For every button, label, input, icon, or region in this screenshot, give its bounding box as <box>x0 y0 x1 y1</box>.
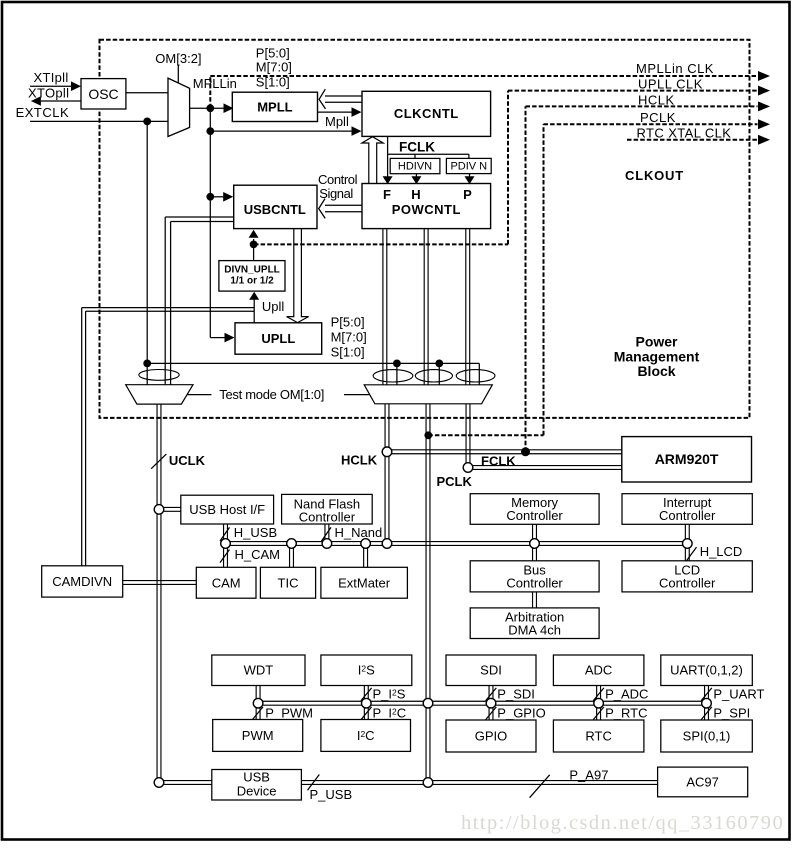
block Interrupt Controller box <box>622 494 752 525</box>
svg-text:Controller: Controller <box>659 508 716 523</box>
svg-text:Mpll: Mpll <box>325 114 349 129</box>
label P_SPI <box>713 705 750 720</box>
wire UCLK to USB Host I/F <box>159 507 181 511</box>
label P_A97 <box>569 767 608 782</box>
node HCLK bus junction <box>382 539 392 549</box>
svg-text:P_USB: P_USB <box>310 787 353 802</box>
label H_LCD <box>700 544 743 559</box>
label H_USB <box>234 525 277 540</box>
svg-text:SPI(0,1): SPI(0,1) <box>683 729 731 744</box>
wire UPLL CLK dashed tap <box>254 91 758 245</box>
svg-text:P_SPI: P_SPI <box>713 705 750 720</box>
wire PCLK dashed tap <box>428 124 757 435</box>
label CLKOUT <box>625 168 684 183</box>
wire HCLK distribution bus <box>226 542 688 546</box>
svg-text:P_I2C: P_I2C <box>373 705 407 720</box>
wire USBCNTL to UPLL hollow arrow <box>287 229 309 323</box>
label S[1:0] top <box>256 75 290 90</box>
wire P_GPIO slash <box>486 707 497 720</box>
block SDI box <box>446 655 536 686</box>
svg-text:PCLK: PCLK <box>437 474 473 489</box>
node TIC junction <box>287 539 297 549</box>
wire P bus POWCNTL to mux <box>466 229 470 385</box>
label HCLK out <box>638 93 675 108</box>
wire test mode callout left <box>187 394 211 396</box>
node P_SDI junction <box>486 698 496 708</box>
svg-text:P_RTC: P_RTC <box>605 705 647 720</box>
label P_UART <box>713 686 764 701</box>
wire P_UART slash <box>701 688 712 701</box>
svg-text:Test mode OM[1:0]: Test mode OM[1:0] <box>219 387 324 402</box>
block Arbitration DMA box <box>470 608 599 639</box>
label HCLK <box>341 452 378 467</box>
label P_I2S <box>373 686 406 701</box>
svg-text:SDI: SDI <box>480 663 502 678</box>
wire USB device bus left <box>159 781 212 785</box>
svg-text:P_PWM: P_PWM <box>265 706 313 721</box>
node PCLK USB junction <box>423 778 433 788</box>
svg-text:EXTCLK: EXTCLK <box>16 105 70 120</box>
wire MPLLin CLK dashed tap <box>210 76 757 108</box>
svg-text:DMA 4ch: DMA 4ch <box>508 622 561 637</box>
svg-text:MPLL: MPLL <box>257 99 292 114</box>
label Signal <box>319 186 353 201</box>
wire mux to MPLL (MPLLin) <box>190 103 234 113</box>
svg-text:RTC XTAL CLK: RTC XTAL CLK <box>637 125 732 140</box>
svg-text:Control: Control <box>318 172 358 187</box>
block POWCNTL box <box>362 184 491 229</box>
wire H_LCD slash <box>687 547 697 561</box>
mux test-mode right trapezoid <box>364 385 492 404</box>
block I2C box <box>321 720 411 752</box>
wire Memory-Bus controller stub <box>533 524 537 561</box>
wire P_A97 slash <box>530 775 550 798</box>
svg-text:XTOpll: XTOpll <box>28 85 69 100</box>
label Control <box>318 172 358 187</box>
wire HCLK vertical bus <box>385 404 389 544</box>
node HCLK junction circle <box>382 447 392 457</box>
node Upll tap dot <box>250 241 258 249</box>
svg-text:Device: Device <box>237 784 277 799</box>
block USB Host I/F box <box>181 495 274 524</box>
wire POWCNTL to CLKCNTL control-signal hollow arrow <box>362 137 383 184</box>
svg-text:Controller: Controller <box>506 575 563 590</box>
label Mpll <box>325 114 349 129</box>
label Upll <box>262 299 285 314</box>
node LCD junction <box>683 539 693 549</box>
wire I2S-I2C stub <box>364 686 368 720</box>
wire FCLK branch to dividers <box>388 154 469 158</box>
svg-text:USBCNTL: USBCNTL <box>244 202 306 217</box>
wire Upll bus left to CAMDIVN <box>82 308 254 566</box>
node bypass dot H <box>435 360 443 368</box>
label XTOpll <box>28 85 69 100</box>
wire UPLL to DIVN_UPLL <box>249 292 259 323</box>
svg-text:TIC: TIC <box>278 576 299 591</box>
svg-text:DIVN_UPLL: DIVN_UPLL <box>224 264 280 275</box>
wire POWCNTL to USBCNTL hollow arrow <box>319 199 362 219</box>
node P_I2S junction <box>362 698 372 708</box>
svg-text:HCLK: HCLK <box>638 93 675 108</box>
svg-text:ARM920T: ARM920T <box>655 451 719 467</box>
wire UART-SPI stub <box>705 686 709 721</box>
label P[5:0] top <box>256 46 290 61</box>
label P_SDI <box>497 686 535 701</box>
svg-text:Power: Power <box>635 334 678 350</box>
block GPIO box <box>446 720 536 752</box>
label P[5:0] right <box>331 314 365 329</box>
label P_I2C <box>373 705 407 720</box>
block UART box <box>661 655 753 686</box>
wire F bus POWCNTL to mux <box>383 229 387 385</box>
block ExtMater box <box>321 567 408 598</box>
label P_ADC <box>605 686 648 701</box>
svg-text:I2S: I2S <box>358 663 375 678</box>
wire P_I2S slash <box>361 688 372 701</box>
label PCLK <box>437 474 473 489</box>
label M[7:0] right <box>331 329 367 344</box>
node H_Nand junction <box>322 539 332 549</box>
svg-text:F: F <box>383 187 391 202</box>
svg-text:USB Host I/F: USB Host I/F <box>189 502 265 517</box>
svg-text:H_Nand: H_Nand <box>335 525 383 540</box>
arrow UPLL CLK output <box>758 86 770 96</box>
wire MPLLin down to UPLL input <box>210 197 234 343</box>
node P_ADC junction <box>594 698 604 708</box>
node HCLK-dashed dot <box>521 447 530 456</box>
node bypass corner dot <box>143 360 151 368</box>
svg-text:MPLLin: MPLLin <box>193 76 237 91</box>
mux test-mode left trapezoid <box>126 385 193 404</box>
svg-text:CLKOUT: CLKOUT <box>625 168 684 183</box>
block Memory Controller box <box>470 494 599 525</box>
svg-text:S[1:0]: S[1:0] <box>256 75 290 90</box>
svg-text:UCLK: UCLK <box>169 453 206 468</box>
wire OM[3:2] select stub <box>177 65 179 84</box>
svg-text:Block: Block <box>637 363 675 379</box>
node bypass dot F <box>393 360 401 368</box>
svg-text:H_CAM: H_CAM <box>235 547 281 562</box>
wire WDT-PWM stub <box>256 686 260 720</box>
block TIC box <box>260 567 315 598</box>
node P_PWM junction <box>253 698 263 708</box>
label P pin <box>463 187 472 202</box>
label P_GPIO <box>497 705 545 720</box>
node EXTCLK branch dot <box>143 118 151 126</box>
wire ADC-RTC stub <box>597 686 601 721</box>
wire OSC to mux <box>126 92 168 94</box>
divider PDIVN box <box>446 158 491 173</box>
label P_PWM <box>265 706 313 721</box>
svg-text:HDIVN: HDIVN <box>398 161 432 173</box>
svg-text:Controller: Controller <box>299 509 356 524</box>
block WDT box <box>212 655 305 686</box>
svg-text:OSC: OSC <box>88 86 118 102</box>
svg-text:P_ADC: P_ADC <box>605 686 648 701</box>
node UCLK to USB Host junction <box>154 505 164 515</box>
wire USB device bus right <box>301 781 657 785</box>
svg-text:H_LCD: H_LCD <box>700 544 743 559</box>
svg-text:CLKCNTL: CLKCNTL <box>394 106 459 121</box>
wire CLKCNTL to MPLL hollow arrow (PMS) <box>319 89 362 109</box>
wire MPLLin to CLKCNTL <box>210 126 361 136</box>
svg-text:WDT: WDT <box>244 663 274 678</box>
wire test mode callout right <box>344 394 370 396</box>
wire bypass horizontal to test muxes <box>147 363 479 384</box>
node UCLK USB junction <box>154 778 164 788</box>
node PCLK dashed tap dot <box>424 431 432 439</box>
label PCLK out <box>640 110 676 125</box>
cpu ARM920T box <box>622 437 752 482</box>
wire HCLK bus to ARM920T <box>387 450 622 454</box>
block RTC box <box>553 720 644 752</box>
wire Upll tap to DIVN_UPLL <box>253 244 255 260</box>
wire USB Host to CAM stub <box>224 524 228 567</box>
label S[1:0] right <box>331 344 365 359</box>
node MPLLin-CLKCNTL dot <box>206 127 214 135</box>
node ExtMater junction <box>361 539 371 549</box>
svg-text:1/1 or 1/2: 1/1 or 1/2 <box>230 275 274 286</box>
wire H_CAM slash <box>220 550 230 563</box>
label OM[3:2] <box>155 51 201 66</box>
svg-text:OM[3:2]: OM[3:2] <box>155 51 201 66</box>
svg-text:Controller: Controller <box>506 508 563 523</box>
divider DIVN_UPLL box <box>219 261 285 292</box>
wire PCLK vertical bus <box>426 404 430 783</box>
svg-text:CAMDIVN: CAMDIVN <box>52 574 112 589</box>
block USBCNTL box <box>234 185 317 228</box>
block USB Device box <box>212 770 302 801</box>
pll MPLL box <box>232 92 317 121</box>
arrow PCLK output <box>758 119 770 129</box>
svg-text:UPLL: UPLL <box>261 331 295 346</box>
pll UPLL box <box>235 323 322 354</box>
block Bus Controller box <box>470 561 599 592</box>
svg-text:H_USB: H_USB <box>234 525 277 540</box>
wire MPLLin down to USBCNTL input <box>210 108 233 201</box>
svg-text:P_SDI: P_SDI <box>497 686 535 701</box>
wire H_USB slash <box>220 527 230 541</box>
label XTIpll <box>34 70 69 85</box>
svg-text:S[1:0]: S[1:0] <box>331 344 365 359</box>
wire USBCNTL UCLK feed to test mux <box>165 217 234 385</box>
label MPLLin <box>193 76 237 91</box>
svg-text:HCLK: HCLK <box>341 452 378 467</box>
block I2S box <box>321 655 412 686</box>
svg-text:MPLLin CLK: MPLLin CLK <box>636 61 714 76</box>
label H pin <box>411 187 420 202</box>
label FCLK <box>481 453 516 468</box>
wire FCLK bus to ARM920T <box>468 466 622 470</box>
wire P_RTC slash <box>593 707 604 720</box>
svg-text:RTC: RTC <box>585 729 611 744</box>
svg-text:M[7:0]: M[7:0] <box>256 60 292 75</box>
wire H bus POWCNTL to mux <box>424 229 428 385</box>
wire ExtMater stub <box>364 544 368 568</box>
svg-text:P_UART: P_UART <box>713 686 764 701</box>
svg-text:P_I2S: P_I2S <box>373 686 406 701</box>
node MPLLin CLK junction dot <box>206 104 214 112</box>
block CAMDIVN box <box>42 566 123 597</box>
label M[7:0] top <box>256 60 292 75</box>
node PCLK bus junction <box>423 698 433 708</box>
arrow MPLLin CLK output <box>758 71 770 81</box>
svg-text:PDIV N: PDIV N <box>450 161 487 173</box>
wire XTIpll input <box>30 81 81 91</box>
label H_Nand <box>335 525 383 540</box>
wire CAMDIVN to CAM <box>123 581 197 585</box>
mux OM[3:2] clock-source trapezoid <box>168 78 190 136</box>
wire FCLK from CLKCNTL down to POWCNTL F <box>383 136 393 184</box>
wire Mpll to CLKCNTL <box>318 107 362 117</box>
svg-text:P_GPIO: P_GPIO <box>497 705 545 720</box>
wire Bus-Arbitration stub <box>533 592 537 608</box>
node FCLK junction circle <box>463 463 473 473</box>
wire P_SDI slash <box>486 688 497 701</box>
block ADC box <box>553 655 644 686</box>
node MPLLin-USBCNTL dot <box>206 193 214 201</box>
svg-text:POWCNTL: POWCNTL <box>392 202 461 217</box>
wire HDIVN to POWCNTL H <box>411 174 421 184</box>
svg-text:PWM: PWM <box>242 728 274 743</box>
wire XTOpll output <box>31 96 81 106</box>
label RTC XTAL CLK <box>637 125 732 140</box>
block Nand Flash Controller box <box>282 494 373 524</box>
svg-text:AC97: AC97 <box>686 775 719 790</box>
wire SDI-GPIO stub <box>489 686 493 721</box>
label P_USB <box>310 787 353 802</box>
block AC97 box <box>658 767 748 797</box>
label Test mode OM[1:0] <box>219 387 324 402</box>
block CLKCNTL box <box>362 91 491 136</box>
svg-text:ExtMater: ExtMater <box>338 576 391 591</box>
svg-text:UART(0,1,2): UART(0,1,2) <box>670 663 743 678</box>
wire UCLK slash <box>151 454 166 469</box>
watermark csdn <box>461 812 784 834</box>
label UPLL CLK <box>638 77 703 92</box>
wire Nand stub <box>325 524 329 544</box>
svg-text:CAM: CAM <box>212 576 241 591</box>
wire Upll into USBCNTL <box>249 230 259 245</box>
oscillator OSC box <box>81 79 126 109</box>
node H_USB junction <box>221 539 231 549</box>
wire P_USB slash <box>308 775 320 791</box>
svg-text:USB: USB <box>243 770 270 785</box>
wire UCLK bus down <box>157 404 161 782</box>
wire PDIVN to POWCNTL P <box>465 174 475 184</box>
wire EXTCLK bypass vertical <box>146 121 148 384</box>
svg-text:XTIpll: XTIpll <box>34 70 69 85</box>
label F pin <box>383 187 391 202</box>
label EXTCLK <box>16 105 70 120</box>
label FCLK top <box>399 140 435 155</box>
svg-text:P: P <box>463 187 472 202</box>
svg-text:H: H <box>411 187 420 202</box>
block CAM box <box>196 567 256 598</box>
wire P_I2C slash <box>361 707 372 720</box>
wire P_ADC slash <box>593 688 604 701</box>
label Power Management Block <box>614 334 700 380</box>
label MPLLin CLK <box>636 61 714 76</box>
svg-text:P_A97: P_A97 <box>569 767 608 782</box>
node P_UART junction <box>702 698 712 708</box>
wire P_SPI slash <box>701 707 712 720</box>
svg-text:ADC: ADC <box>585 663 612 678</box>
wire Interrupt-LCD stub <box>685 524 689 561</box>
arrow HCLK output <box>758 101 770 111</box>
label UCLK <box>169 453 206 468</box>
arrow RTC XTAL CLK output <box>758 135 770 145</box>
label P_RTC <box>605 705 647 720</box>
wire PCLK distribution bus <box>258 701 706 705</box>
svg-text:http://blog.csdn.net/qq_331607: http://blog.csdn.net/qq_33160790 <box>461 812 784 834</box>
svg-text:P[5:0]: P[5:0] <box>256 46 290 61</box>
wire P_PWM slash <box>252 707 263 720</box>
switch ellipse UCLK <box>139 370 179 381</box>
wire HCLK dashed tap <box>526 106 758 451</box>
svg-text:Upll: Upll <box>262 299 285 314</box>
divider HDIVN box <box>390 158 440 173</box>
wire FCLK vertical bus <box>466 404 470 468</box>
block LCD Controller box <box>622 561 752 592</box>
switch ellipse P <box>456 370 495 382</box>
svg-text:I2C: I2C <box>357 728 375 743</box>
svg-text:GPIO: GPIO <box>475 729 508 744</box>
wire RTC XTAL CLK dashed <box>627 139 758 141</box>
svg-text:PCLK: PCLK <box>640 110 676 125</box>
node Bus Controller junction <box>530 539 540 549</box>
wire TIC stub <box>290 544 294 568</box>
switch ellipse F <box>373 370 413 382</box>
clock generator dashed boundary box <box>100 40 750 418</box>
svg-text:Controller: Controller <box>659 575 716 590</box>
switch ellipse H <box>415 370 452 382</box>
svg-text:FCLK: FCLK <box>399 140 435 155</box>
svg-text:FCLK: FCLK <box>481 453 516 468</box>
svg-text:UPLL CLK: UPLL CLK <box>638 77 703 92</box>
svg-text:M[7:0]: M[7:0] <box>331 329 367 344</box>
wire H_Nand slash <box>322 527 332 541</box>
wire EXTCLK input <box>30 120 168 122</box>
svg-text:P[5:0]: P[5:0] <box>331 314 365 329</box>
label H_CAM <box>235 547 281 562</box>
block PWM box <box>213 720 303 752</box>
block SPI box <box>661 720 753 752</box>
